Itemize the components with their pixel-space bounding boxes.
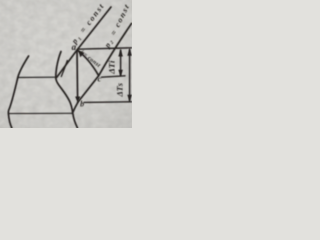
horizontal tie line p2 (H2) — [8, 112, 72, 114]
up arrowhead of delta-Ti arrow — [118, 50, 123, 57]
paper background — [0, 0, 132, 128]
down arrowhead of delta-Ts arrow — [127, 95, 132, 102]
short auxiliary stroke left of point a — [61, 61, 67, 77]
vertical isentropic line a to b — [76, 50, 79, 98]
svg-text:ΔTі: ΔTі — [107, 60, 117, 75]
delta-Ti dimension arrow line — [120, 50, 122, 76]
p2 = const line segment b to c (L2 lower) — [72, 76, 98, 114]
dome left-branch curve C1 — [8, 56, 28, 128]
horizontal level line through a — [78, 48, 132, 49]
delta-Ts dimension arrow line — [129, 49, 131, 100]
dome right-branch curve C2 — [56, 52, 78, 129]
svg-text:ΔTѕ: ΔTѕ — [116, 83, 125, 98]
horizontal tie line p1 (H1) — [18, 76, 57, 78]
horizontal level line through b — [84, 101, 132, 104]
svg-text:a: a — [72, 42, 77, 52]
horizontal level line through c — [102, 76, 126, 77]
arrowhead at b end of vertical line — [75, 97, 80, 104]
down arrowhead of delta-Ti arrow — [118, 70, 123, 77]
svg-text:b: b — [80, 99, 84, 108]
p2 = const line above c (L2 upper) — [99, 24, 132, 76]
svg-text:c: c — [98, 74, 102, 84]
i = const throttling curve a to c (L3) — [77, 50, 98, 76]
arrowhead on i=const line pointing to a — [78, 51, 84, 57]
p1 = const straight line through a (L1) — [57, 7, 111, 77]
up arrowhead of delta-Ts arrow — [127, 49, 132, 56]
